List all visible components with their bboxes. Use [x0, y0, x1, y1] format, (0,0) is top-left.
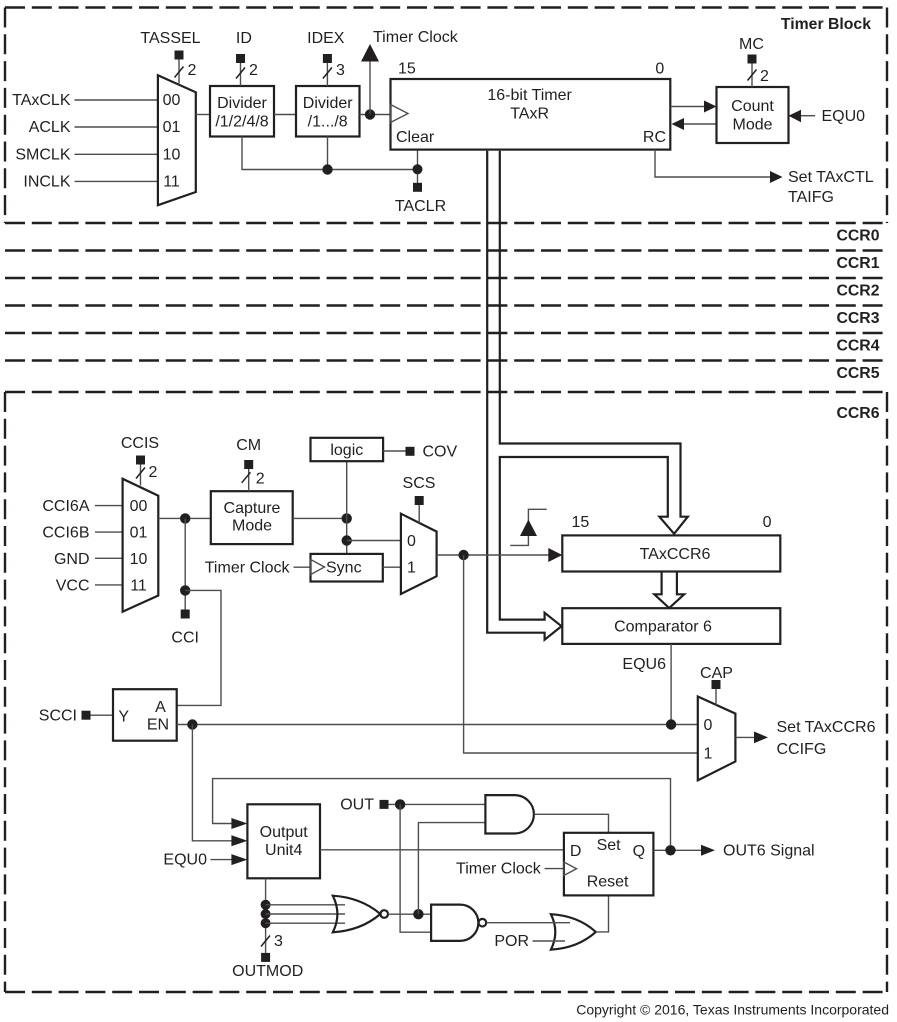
wire OUT to AND	[389, 803, 486, 805]
CCIS bus slash	[136, 468, 145, 479]
TASSEL bus slash	[175, 67, 184, 78]
svg-text:01: 01	[130, 525, 148, 542]
TAxCCR6 register box	[562, 535, 780, 571]
svg-text:Timer Clock: Timer Clock	[205, 560, 291, 577]
comparator 6 box	[562, 608, 780, 644]
count mode box	[717, 87, 789, 143]
svg-text:TAxCCR6: TAxCCR6	[640, 546, 711, 563]
CCIS select square	[136, 456, 145, 465]
svg-text:0: 0	[655, 60, 664, 77]
arrowhead timer clock	[361, 44, 379, 62]
wire TACLR divider2 drop	[327, 137, 329, 170]
svg-text:/1.../8: /1.../8	[308, 114, 348, 131]
wire OR out to Reset	[596, 895, 609, 932]
svg-text:10: 10	[163, 147, 181, 164]
wire CCI branch down	[184, 518, 186, 609]
NOR gate	[333, 896, 381, 933]
svg-text:A: A	[155, 699, 166, 716]
svg-text:ID: ID	[236, 30, 252, 47]
wire NOR out up to AND input	[418, 823, 485, 915]
OR gate	[551, 914, 596, 949]
svg-text:0: 0	[704, 717, 713, 734]
svg-text:0: 0	[763, 514, 772, 531]
svg-text:OUT6 Signal: OUT6 Signal	[723, 843, 815, 860]
timer bus hollow with branch to TAxCCR6 and comparator arrow	[487, 151, 688, 640]
mux TASSEL clock select	[158, 75, 196, 205]
junction OUTMOD 1	[261, 900, 271, 910]
svg-text:00: 00	[163, 92, 181, 109]
svg-text:CCI6A: CCI6A	[42, 498, 89, 515]
CCR strip line 4	[5, 332, 884, 334]
mux SCS	[401, 514, 437, 594]
wire CM select	[248, 469, 250, 491]
SCCI terminal square	[82, 711, 91, 720]
svg-text:3: 3	[274, 933, 283, 950]
mux TASSEL input labels	[163, 92, 181, 190]
arrowhead output unit input 2	[231, 835, 247, 846]
CAP select square	[712, 680, 721, 689]
svg-text:Divider: Divider	[303, 95, 353, 112]
svg-text:TAxR: TAxR	[510, 106, 549, 123]
wire Q feedback	[213, 779, 671, 851]
svg-text:CCR1: CCR1	[836, 255, 879, 272]
svg-text:COV: COV	[423, 444, 458, 461]
svg-text:/1/2/4/8: /1/2/4/8	[215, 114, 268, 131]
CCR strip line 1	[5, 249, 884, 251]
wire ACLK to mux	[75, 126, 158, 128]
svg-text:TAIFG: TAIFG	[788, 189, 834, 206]
svg-text:1: 1	[704, 746, 713, 763]
junction TACLR	[413, 164, 423, 174]
svg-text:2: 2	[188, 62, 197, 79]
junction NOR out	[413, 909, 423, 919]
svg-text:EQU6: EQU6	[622, 656, 666, 673]
arrowhead output unit input 1	[231, 818, 247, 829]
sync box	[311, 554, 383, 582]
arrowhead EQU0	[789, 110, 802, 122]
wire SCS select	[418, 505, 420, 523]
svg-text:Output: Output	[260, 824, 309, 841]
svg-text:Unit4: Unit4	[265, 842, 302, 859]
wire OUT down to NAND input	[400, 804, 431, 932]
svg-text:EN: EN	[147, 717, 169, 734]
svg-text:TACLR: TACLR	[395, 198, 446, 215]
wire TACLR net divider1 drop	[242, 137, 418, 170]
IDEX bus slash	[323, 68, 332, 79]
wire OUTMOD to NOR input 1	[266, 904, 345, 906]
svg-text:CCIS: CCIS	[121, 435, 159, 452]
junction EN left	[187, 719, 197, 729]
svg-text:CCI6B: CCI6B	[42, 525, 89, 542]
junction timer clock	[365, 109, 375, 119]
svg-text:CCR2: CCR2	[836, 283, 879, 300]
arrowhead output unit input 3	[231, 854, 247, 865]
CM bus slash	[242, 472, 251, 483]
svg-text:CCR3: CCR3	[836, 310, 879, 327]
svg-text:D: D	[570, 843, 582, 860]
svg-text:CCIFG: CCIFG	[777, 741, 827, 758]
OUTMOD terminal square	[261, 953, 270, 962]
wire CAP select	[715, 689, 717, 705]
arrowhead into TAxCCR6	[548, 548, 562, 562]
NAND output bubble	[479, 919, 487, 927]
divider IDEX box	[296, 86, 360, 137]
svg-text:Set TAxCTL: Set TAxCTL	[788, 169, 874, 186]
latch Y A EN box	[113, 689, 177, 741]
arrowhead set TAxCTL	[770, 171, 783, 183]
wire VCC to mux	[95, 584, 123, 586]
wire to SCS mux input 0	[347, 540, 401, 542]
svg-text:EQU0: EQU0	[822, 108, 866, 125]
Timer Block dashed border	[5, 6, 887, 8]
wire sync to SCS mux input 1	[383, 566, 401, 568]
junction CCI	[180, 585, 190, 595]
svg-text:Reset: Reset	[587, 874, 629, 891]
svg-text:INCLK: INCLK	[23, 174, 70, 191]
mux CAP input labels	[704, 717, 713, 763]
wire SCS mux out to TAxCCR6	[437, 554, 551, 556]
ID bus slash	[236, 68, 245, 79]
output unit4 box	[247, 804, 320, 878]
svg-text:CCR6: CCR6	[836, 405, 879, 422]
svg-text:0: 0	[407, 533, 416, 550]
svg-text:00: 00	[130, 498, 148, 515]
arrowhead OUT6 signal	[701, 845, 715, 856]
wire MC select	[751, 64, 753, 88]
svg-text:2: 2	[249, 62, 258, 79]
wire TACLR to timer clear	[417, 150, 419, 184]
flipflop clock chevron	[564, 862, 577, 876]
TASSEL select square	[175, 51, 184, 60]
svg-text:Sync: Sync	[326, 560, 362, 577]
wire capture signal down to CAP mux 1	[464, 555, 698, 753]
svg-text:VCC: VCC	[56, 577, 90, 594]
CCR strip line 5	[5, 359, 884, 361]
wire CAP mux out	[735, 736, 755, 738]
svg-text:CAP: CAP	[700, 665, 733, 682]
wire TASSEL select	[178, 60, 180, 85]
svg-text:MC: MC	[739, 36, 764, 53]
svg-text:CM: CM	[236, 437, 261, 454]
wire logic to COV	[383, 450, 405, 452]
wire output unit to D input	[320, 849, 564, 851]
svg-text:Capture: Capture	[224, 500, 281, 517]
junction EQU6 on EN net	[666, 719, 676, 729]
SCS select square	[415, 496, 424, 505]
svg-text:01: 01	[163, 119, 181, 136]
svg-text:Copyright © 2016, Texas Instru: Copyright © 2016, Texas Instruments Inco…	[576, 1002, 889, 1018]
svg-text:CCR4: CCR4	[836, 338, 879, 355]
CCR6 dashed border	[5, 391, 887, 393]
svg-text:Comparator 6: Comparator 6	[614, 618, 712, 635]
svg-text:GND: GND	[54, 551, 90, 568]
wire EN net	[177, 724, 698, 726]
wire OUTMOD to NOR input 2	[266, 913, 345, 915]
wire mux CCIS to capture mode	[158, 517, 211, 519]
OUTMOD bus slash	[261, 936, 270, 947]
svg-text:3: 3	[336, 62, 345, 79]
16-bit timer TAxR box	[391, 79, 671, 150]
svg-text:RC: RC	[643, 129, 666, 146]
arrowhead set TAxCCR6 CCIFG	[754, 732, 768, 744]
wire GND to mux	[95, 557, 123, 559]
svg-text:TAxCLK: TAxCLK	[12, 92, 71, 109]
CCR strip line 3	[5, 304, 884, 306]
svg-text:ACLK: ACLK	[29, 119, 71, 136]
ID select square	[236, 54, 245, 63]
svg-text:TASSEL: TASSEL	[140, 30, 200, 47]
wire OUTMOD vertical	[265, 878, 267, 953]
junction OUTMOD 3	[261, 918, 271, 928]
svg-text:POR: POR	[494, 933, 529, 950]
svg-text:OUT: OUT	[340, 797, 374, 814]
mux CCIS input labels	[130, 498, 148, 594]
wire POR to OR	[533, 940, 566, 942]
svg-text:SCCI: SCCI	[39, 708, 77, 725]
wire TAxCLK to mux	[75, 99, 158, 101]
wire Q output	[653, 849, 701, 851]
wire timer clock to flipflop	[545, 868, 564, 870]
svg-text:Set TAxCCR6: Set TAxCCR6	[777, 719, 876, 736]
OUT terminal square	[380, 800, 389, 809]
svg-text:16-bit Timer: 16-bit Timer	[487, 87, 572, 104]
CCI terminal square	[181, 610, 190, 619]
hollow arrow TAxCCR6 to comparator	[654, 572, 684, 608]
svg-text:Timer Clock: Timer Clock	[456, 861, 542, 878]
wire OUTMOD to NOR input 3	[266, 922, 345, 924]
MC select square	[748, 55, 757, 64]
svg-text:SMCLK: SMCLK	[15, 147, 70, 164]
wire NAND to OR	[486, 922, 570, 924]
wire timer clock up	[369, 61, 371, 115]
capture mode box	[211, 491, 293, 544]
svg-text:Mode: Mode	[732, 117, 772, 134]
sync clock chevron	[311, 559, 325, 574]
wire count mode to timer	[684, 123, 717, 125]
wire EQU0 to count mode	[801, 115, 815, 117]
timer clock chevron	[391, 105, 409, 123]
NAND gate	[431, 905, 478, 941]
arrowhead into count mode	[704, 101, 717, 113]
wire SCCI to latch	[91, 714, 114, 716]
wire SMCLK to mux	[75, 153, 158, 155]
junction OUTMOD 2	[261, 909, 271, 919]
junction capture signal	[458, 550, 468, 560]
svg-text:Mode: Mode	[232, 518, 272, 535]
COV terminal square	[406, 447, 415, 456]
wire divider2 to timer	[360, 114, 391, 116]
CCR strip line 2	[5, 277, 884, 279]
wire IDEX select	[326, 63, 328, 86]
svg-text:10: 10	[130, 551, 148, 568]
junction capture input	[180, 513, 190, 523]
svg-text:Timer Block: Timer Block	[781, 16, 871, 33]
wire timer to count mode	[670, 106, 705, 108]
wire CCIS select	[140, 465, 142, 486]
svg-text:OUTMOD: OUTMOD	[232, 963, 303, 980]
svg-text:CCR0: CCR0	[836, 228, 879, 245]
svg-text:Divider: Divider	[217, 95, 267, 112]
divider ID box	[210, 86, 274, 137]
AND gate	[485, 795, 534, 833]
wire EN down to output unit	[192, 725, 232, 841]
wire INCLK to mux	[75, 180, 158, 182]
wire ID select	[240, 63, 242, 86]
svg-text:11: 11	[130, 577, 147, 594]
svg-text:Clear: Clear	[396, 129, 435, 146]
svg-text:Timer Clock: Timer Clock	[373, 29, 459, 46]
junction TACLR divider2	[322, 164, 332, 174]
svg-text:CCR5: CCR5	[836, 365, 879, 382]
TACLR terminal square	[413, 183, 422, 192]
wire EQU0 to output unit	[211, 859, 233, 861]
junction OUT	[395, 799, 405, 809]
mux CAP	[698, 697, 736, 781]
svg-text:Count: Count	[731, 98, 774, 115]
D flipflop box	[564, 833, 654, 896]
svg-text:Y: Y	[118, 709, 129, 726]
wire CCI6B to mux	[95, 531, 123, 533]
svg-text:logic: logic	[330, 442, 363, 459]
mux SCS input labels	[407, 533, 416, 577]
svg-text:Q: Q	[633, 843, 645, 860]
svg-text:SCS: SCS	[403, 475, 436, 492]
svg-text:EQU0: EQU0	[163, 852, 207, 869]
wire divider1 to divider2	[274, 114, 296, 116]
wire CCI to A input of latch	[177, 590, 221, 705]
IDEX select square	[323, 54, 332, 63]
svg-text:Set: Set	[597, 837, 622, 854]
svg-text:11: 11	[163, 174, 180, 191]
wire timer clock to sync	[294, 566, 311, 568]
wire RC to TAIFG	[655, 150, 770, 177]
junction logic drop	[342, 513, 352, 523]
wire capture mode to SCS net	[293, 517, 347, 519]
wire CCI6A to mux	[95, 505, 123, 507]
svg-text:2: 2	[760, 68, 769, 85]
junction SCS 0 input	[342, 535, 352, 545]
mux CCIS capture input select	[123, 479, 159, 612]
capture edge symbol	[510, 509, 547, 545]
wire NOR to NAND	[388, 913, 431, 915]
logic box	[311, 438, 384, 461]
wire logic to sync vertical	[346, 461, 348, 554]
NOR output bubble	[380, 910, 388, 918]
svg-text:2: 2	[149, 464, 158, 481]
svg-text:15: 15	[398, 60, 416, 77]
svg-text:2: 2	[256, 471, 265, 488]
wire mux to divider1	[196, 114, 210, 116]
wire AND out to Set	[534, 814, 609, 833]
wire EQU6	[670, 644, 672, 725]
junction Q	[665, 845, 675, 855]
CM select square	[244, 460, 253, 469]
svg-text:CCI: CCI	[171, 630, 199, 647]
svg-text:15: 15	[572, 514, 590, 531]
svg-text:IDEX: IDEX	[307, 30, 345, 47]
arrowhead into timer	[672, 118, 685, 130]
svg-text:1: 1	[407, 560, 416, 577]
MC bus slash	[748, 70, 757, 81]
